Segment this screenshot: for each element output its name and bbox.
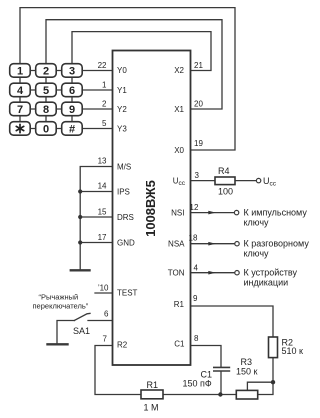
svg-text:150 пФ: 150 пФ [183, 379, 212, 389]
svg-text:15: 15 [98, 208, 107, 217]
svg-text:M/S: M/S [117, 163, 131, 172]
svg-text:8: 8 [43, 104, 49, 116]
svg-text:X2: X2 [174, 66, 184, 75]
svg-text:TEST: TEST [117, 289, 138, 298]
svg-text:Y1: Y1 [117, 86, 127, 95]
svg-text:4: 4 [17, 85, 24, 97]
svg-text:#: # [69, 124, 75, 136]
svg-text:TON: TON [168, 269, 185, 278]
svg-text:Y0: Y0 [117, 66, 127, 75]
svg-text:21: 21 [194, 61, 203, 70]
svg-text:510 к: 510 к [282, 346, 304, 356]
svg-text:“Рычажный: “Рычажный [39, 293, 79, 302]
svg-text:переключатель”: переключатель” [33, 302, 89, 311]
svg-text:IPS: IPS [117, 188, 130, 197]
svg-text:12: 12 [190, 203, 199, 212]
svg-text:К устройству: К устройству [244, 268, 298, 278]
svg-text:6: 6 [69, 85, 75, 97]
svg-text:Y2: Y2 [117, 105, 127, 114]
svg-text:5: 5 [102, 119, 107, 128]
svg-text:100: 100 [218, 187, 233, 197]
svg-text:13: 13 [98, 157, 107, 166]
svg-text:1: 1 [17, 66, 23, 78]
svg-text:1: 1 [102, 81, 107, 90]
svg-text:4: 4 [194, 264, 199, 273]
svg-text:SA1: SA1 [73, 326, 90, 336]
svg-text:9: 9 [69, 104, 75, 116]
svg-text:’10: ’10 [98, 284, 109, 293]
svg-text:8: 8 [194, 334, 199, 343]
svg-text:NSI: NSI [171, 209, 184, 218]
svg-text:150 к: 150 к [236, 366, 258, 376]
svg-text:18: 18 [189, 234, 198, 243]
svg-text:22: 22 [98, 61, 107, 70]
svg-text:1008ВЖ5: 1008ВЖ5 [143, 180, 158, 237]
svg-text:14: 14 [98, 182, 107, 191]
svg-text:9: 9 [193, 294, 198, 303]
svg-text:0: 0 [43, 124, 49, 136]
svg-text:ключу: ключу [244, 248, 270, 258]
svg-text:R3: R3 [241, 357, 253, 367]
svg-text:R4: R4 [218, 166, 230, 176]
svg-text:К импульсному: К импульсному [244, 208, 308, 218]
svg-text:Ucc: Ucc [263, 176, 277, 187]
svg-text:7: 7 [17, 104, 23, 116]
svg-text:Y3: Y3 [117, 125, 127, 134]
svg-text:3: 3 [195, 171, 200, 180]
svg-text:2: 2 [102, 100, 107, 109]
svg-text:1 М: 1 М [144, 403, 159, 413]
svg-text:R1: R1 [147, 380, 159, 390]
svg-text:C1: C1 [174, 340, 185, 349]
svg-text:R1: R1 [174, 300, 185, 309]
svg-text:индикации: индикации [244, 277, 289, 287]
svg-text:6: 6 [104, 309, 109, 318]
svg-text:20: 20 [194, 100, 203, 109]
svg-text:17: 17 [98, 233, 107, 242]
svg-text:DRS: DRS [117, 213, 134, 222]
svg-text:3: 3 [69, 66, 75, 78]
svg-text:R2: R2 [117, 341, 128, 350]
svg-text:NSA: NSA [168, 240, 185, 249]
svg-text:X0: X0 [174, 146, 184, 155]
svg-text:5: 5 [43, 85, 49, 97]
svg-text:2: 2 [43, 66, 49, 78]
svg-text:7: 7 [103, 335, 108, 344]
svg-text:ключу: ключу [244, 217, 270, 227]
svg-text:К разговорному: К разговорному [244, 239, 310, 249]
svg-text:X1: X1 [174, 105, 184, 114]
svg-text:GND: GND [117, 239, 135, 248]
svg-text:19: 19 [194, 139, 203, 148]
